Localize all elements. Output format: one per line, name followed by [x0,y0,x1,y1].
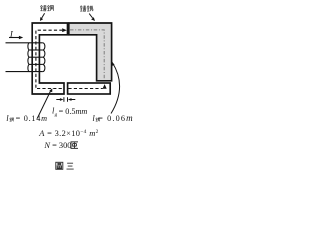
svg-text:N = 300: N = 300 [43,141,71,150]
svg-text:l: l [92,113,95,123]
svg-text:I: I [9,28,14,38]
svg-text:= 0.5mm: = 0.5mm [59,107,88,116]
svg-text:= 0.06m: = 0.06m [98,113,134,123]
svg-text:= 0.14m: = 0.14m [16,114,48,123]
svg-text:g: g [55,112,58,118]
svg-text:A = 3.2×10−4 m2: A = 3.2×10−4 m2 [38,129,98,138]
svg-text:l: l [6,113,9,123]
